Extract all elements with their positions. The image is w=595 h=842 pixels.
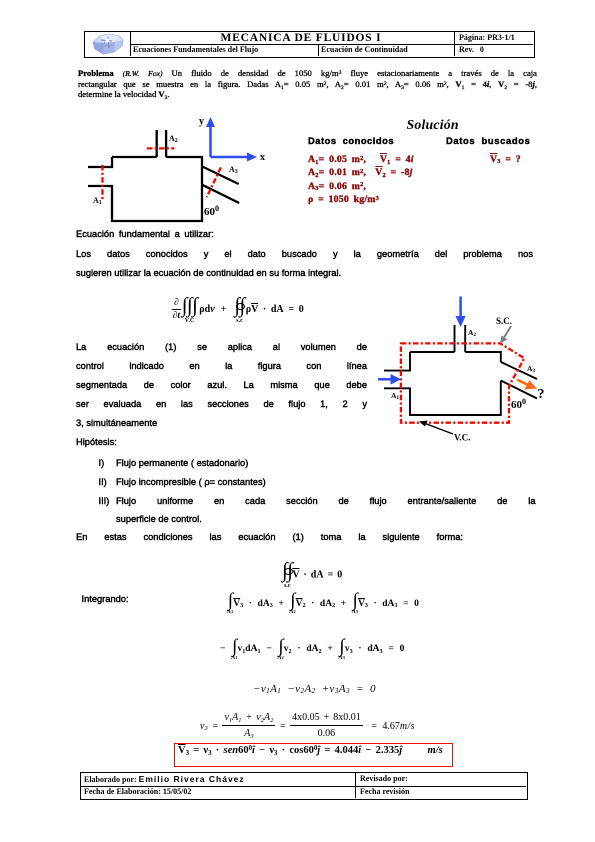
blue axes <box>209 124 212 157</box>
vertical divider col2/col3 row2 only <box>318 44 319 56</box>
svg-text:600: 600 <box>511 397 526 411</box>
body text: Ecuacion fundamental <box>76 229 214 239</box>
Datos conocidos <box>308 135 394 146</box>
equation D: algebraic sum <box>253 683 376 695</box>
svg-text:V.C.: V.C. <box>454 433 470 443</box>
gray arrow to S.C. <box>503 326 512 340</box>
equation 1: continuity integral <box>172 296 304 322</box>
svg-text:S.C.: S.C. <box>496 316 512 326</box>
equation F: final answer in red box <box>174 743 453 767</box>
equation B: sum of three surface integrals <box>227 592 419 616</box>
svg-text:A3: A3 <box>229 165 238 175</box>
svg-text:A3: A3 <box>527 364 535 374</box>
svg-text:A1: A1 <box>93 196 102 206</box>
box outline <box>88 157 112 167</box>
blue arrow into A1 <box>378 378 394 381</box>
black arrow to V.C. <box>424 423 453 434</box>
logo cell border <box>85 32 131 56</box>
svg-text:600: 600 <box>204 204 219 218</box>
orange arrow A3 out <box>517 380 529 386</box>
footer table <box>80 772 528 800</box>
known data (dark red) <box>308 153 414 207</box>
blue arrow into A2 <box>459 297 462 319</box>
outlet pipe upper line <box>202 166 239 184</box>
equation A: surface integral = 0 <box>282 561 342 587</box>
gem logo <box>88 33 127 55</box>
Solucion heading <box>407 117 459 133</box>
figure 1 <box>85 110 270 230</box>
svg-text:A2: A2 <box>169 134 178 144</box>
figure 2 <box>378 290 550 445</box>
equation E: v3 value with fractions <box>200 712 415 741</box>
vertical divider col3/col4 <box>454 32 455 56</box>
red section line A2 <box>147 147 174 149</box>
svg-text:A2: A2 <box>468 328 476 338</box>
hypotheses list <box>99 454 536 529</box>
svg-text:A1: A1 <box>391 391 399 401</box>
paragraph: La ecuacion (1) <box>76 338 367 451</box>
top pipe <box>454 325 456 352</box>
control volume red dashed <box>401 343 525 422</box>
row divider (right of logo) <box>130 44 533 45</box>
svg-text:x: x <box>260 152 265 163</box>
equation C: minus integrals of speeds <box>220 637 404 661</box>
top pipe <box>156 130 158 157</box>
sought data <box>490 154 521 165</box>
header table <box>84 31 535 58</box>
outlet pipe <box>501 362 537 379</box>
svg-text:?: ? <box>538 387 545 402</box>
outlet pipe lower line <box>202 185 239 203</box>
Integrando <box>82 594 129 604</box>
box outline <box>384 352 410 371</box>
red section line A3 <box>207 167 221 197</box>
Datos buscados <box>446 135 531 146</box>
red section line A1 <box>101 165 103 200</box>
problem paragraph <box>78 68 537 99</box>
svg-text:y: y <box>199 116 204 127</box>
